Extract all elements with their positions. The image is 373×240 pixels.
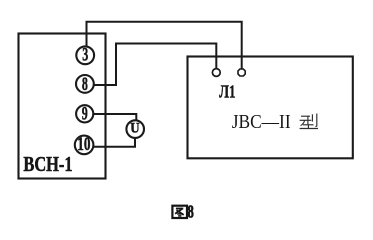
terminal 9 xyxy=(76,104,93,124)
caption glyph 图 (tu) xyxy=(172,206,187,218)
svg-text:U: U xyxy=(130,120,139,137)
svg-text:9: 9 xyxy=(82,104,88,124)
svg-text:8: 8 xyxy=(82,74,88,94)
svg-text:10: 10 xyxy=(77,133,90,155)
wire meter U bottom to terminal 10 xyxy=(93,138,135,147)
wire terminal 3 to J1 right terminal xyxy=(87,22,242,69)
terminal J1 left xyxy=(212,69,220,77)
voltmeter U xyxy=(126,120,144,138)
device box JBC-II xyxy=(188,57,353,159)
terminal 8 xyxy=(76,74,94,94)
svg-text:8: 8 xyxy=(188,202,194,222)
svg-text:Л1: Л1 xyxy=(219,83,235,102)
svg-text:BCH-1: BCH-1 xyxy=(23,153,72,176)
wire terminal 9 to meter U top xyxy=(93,114,136,121)
CJK glyph 型 (xing) xyxy=(300,114,318,129)
terminal 10 xyxy=(75,133,94,155)
wire terminal 8 to J1 left terminal xyxy=(94,44,217,86)
svg-text:3: 3 xyxy=(82,45,88,65)
device box BCH-1 xyxy=(19,34,106,179)
svg-text:JBC—II: JBC—II xyxy=(232,111,291,133)
terminal J1 right xyxy=(238,69,245,76)
terminal 3 xyxy=(76,45,94,65)
